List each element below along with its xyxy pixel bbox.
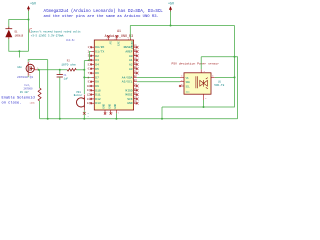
svg-text:GND: GND [127,102,133,105]
svg-text:D2: D2 [95,55,99,58]
svg-text:Enable Solenoid: Enable Solenoid [2,96,35,101]
svg-text:D9: D9 [95,85,99,88]
svg-text:AREF: AREF [125,51,132,54]
svg-text:+3-5 12VDC 3.3V-270mA: +3-5 12VDC 3.3V-270mA [31,34,64,37]
junction GND rail [115,118,117,120]
svg-text:+5V: +5V [168,3,175,7]
svg-text:3: 3 [181,76,182,78]
svg-text:Atmega32u4 (Arduino Leonardo): Atmega32u4 (Arduino Leonardo) has D2=SDA… [44,9,164,14]
bottom pin GND [110,110,112,113]
svg-text:R1 4k7: R1 4k7 [20,91,29,94]
pin AREF [134,51,138,53]
junction bar crossing [234,56,236,58]
svg-text:5V: 5V [108,41,111,45]
IC A1 Arduino_UNO_R3 body [94,40,133,110]
svg-text:GND: GND [108,103,111,108]
svg-text:A1: A1 [117,29,121,33]
wire SDA [137,76,180,78]
wire to D7 pin [84,76,91,78]
pin D7 [91,76,94,78]
wire sensor top pin [200,57,202,69]
svg-text:2N7000: 2N7000 [24,88,34,91]
wire buzzer to rail [83,110,85,118]
svg-text:7: 7 [118,111,119,114]
pin D12 [91,98,94,100]
wire source stub [27,76,29,77]
wire loop bottom [9,39,29,52]
svg-text:A1: A1 [129,59,133,62]
wire stub down [18,51,20,57]
svg-text:SCL: SCL [186,85,191,88]
diode D1 1N5819 [5,27,12,39]
bottom pin GND [104,110,106,113]
wire gate row right [76,69,84,71]
svg-text:Fet,: Fet, [25,84,31,87]
pin D0/RX [91,46,94,48]
wire GND pin to rail [115,113,117,118]
svg-text:1uF: 1uF [64,77,69,80]
pin D5 [91,68,94,70]
junction buzzer rail [83,118,85,120]
wire jog to D1/TX pin [84,52,91,61]
svg-text:D11: D11 [95,94,101,97]
wire long vertical x47.7 [47,60,49,119]
svg-text:6: 6 [181,84,182,86]
pin [134,72,138,74]
pin D1/TX [91,51,94,53]
svg-text:2: 2 [205,98,206,100]
pin D4 [91,63,94,65]
svg-text:SDA: SDA [186,81,191,84]
junction C1 tap [59,69,61,71]
svg-text:7: 7 [112,111,113,114]
svg-text:D4: D4 [95,63,99,66]
svg-text:D1/TX: D1/TX [95,50,104,54]
wire power drop [28,11,30,20]
wire power vertical [28,20,30,52]
pin A5/SCL [134,81,138,83]
svg-text:MOSI: MOSI [125,94,132,97]
junction right pin bus [234,76,236,78]
pin D2 [91,55,94,57]
svg-text:A0: A0 [129,55,133,58]
wire gate vertical x84.3 [83,61,85,94]
wire R1 top [39,70,41,88]
sensor internals [196,76,208,89]
wire C1 top [59,70,61,75]
junction sensor bottom [203,106,205,108]
svg-text:2: 2 [128,37,129,40]
svg-text:1070 ohm: 1070 ohm [61,63,76,67]
wire inner vertical + return y107 [162,26,235,108]
junction power right [170,25,172,27]
svg-text:MISO: MISO [125,89,132,92]
pin D6 [91,72,94,74]
svg-text:D10: D10 [95,89,101,92]
svg-text:RESET: RESET [130,41,133,49]
pin SCK [134,98,138,100]
buzzer pin marks [83,112,86,115]
junction node gate tap [18,50,20,52]
wire sensor right pin [215,76,235,78]
pin D3 [91,59,94,61]
svg-text:SCK: SCK [127,98,133,101]
svg-text:GND: GND [114,103,117,108]
wire sensor bottom pin [203,100,205,107]
svg-text:Buzzer: Buzzer [74,94,83,97]
pin A0 [134,55,138,57]
junction power node [28,19,30,21]
svg-text:1N5819: 1N5819 [15,34,24,37]
wire drain loop top [28,60,48,62]
wire SCL [137,81,180,83]
pin RESET [134,46,138,48]
power arrow left [27,6,30,11]
top pin 3V3 [116,37,118,40]
annotation bracket [29,29,32,33]
svg-text:GA1: GA1 [17,66,22,69]
svg-text:1: 1 [204,71,205,73]
svg-text:100k: 100k [30,102,36,105]
svg-text:D6: D6 [95,72,99,75]
power arrow right [169,6,172,11]
svg-text:P5V deviation Power sensor: P5V deviation Power sensor [172,62,220,66]
svg-text:7: 7 [106,111,107,114]
wire power right drop [170,11,172,25]
pin A1 [134,59,138,61]
pin GND [134,102,138,104]
buzzer PZ1 [76,95,84,111]
wire bottom rail [40,118,238,120]
svg-text:Doesn't exceed board rated vol: Doesn't exceed board rated volts [31,29,81,33]
svg-text:D8: D8 [95,81,99,84]
transistor Q1 [26,62,39,76]
wire x162 drop [161,107,163,119]
pin D13 [91,102,94,104]
svg-text:3V3: 3V3 [117,41,120,46]
wire R1 bottom [39,101,41,119]
pin D11 [91,94,94,96]
junction x47.7 rail [47,118,49,120]
svg-text:on close.: on close. [2,100,22,105]
svg-text:2: 2 [106,37,107,40]
junction at Q1 pin [38,69,40,71]
svg-text:GND: GND [103,103,106,108]
svg-text:D13: D13 [95,102,101,105]
svg-text:R2: R2 [67,59,71,62]
svg-text:D0/RX: D0/RX [95,45,104,49]
junction x84.3 gate row [83,69,85,71]
svg-text:5CD-T8: 5CD-T8 [214,84,224,87]
pin MOSI [134,94,138,96]
svg-text:A4/SDA: A4/SDA [122,75,133,79]
pin [134,85,138,87]
svg-text:2: 2 [115,37,116,40]
svg-text:D3: D3 [95,59,99,62]
capacitor C1 [57,75,63,77]
svg-text:D7: D7 [95,76,99,79]
resistor R1 [38,88,41,101]
svg-text:3v3-5v: 3v3-5v [66,39,75,42]
pin D9 [91,85,94,87]
pin A3 [134,68,138,70]
svg-text:A3: A3 [129,68,133,71]
wire bar y53.3 + outer vertical [201,57,237,119]
svg-text:4: 4 [181,80,182,82]
wire gate row left [39,69,68,71]
wire top bus [130,25,234,27]
svg-text:5: 5 [212,76,213,78]
pin MISO [134,89,138,91]
junction x162 rail [161,118,163,120]
sensor U1 body [184,73,211,94]
top pin 5V [108,37,110,40]
top pin RESET [129,37,131,40]
junction C1 rail [59,118,61,120]
pin A2 [134,63,138,65]
pin D10 [91,89,94,91]
resistor R2 [67,69,76,72]
wire into IC top pin [129,26,131,39]
pin A4/SDA [134,76,138,78]
wire C1 bottom [59,77,61,119]
svg-text:D12: D12 [95,98,101,101]
svg-text:+5V: +5V [30,2,37,6]
wire top-left loop top [9,20,29,29]
svg-text:A5/SCL: A5/SCL [122,80,133,84]
svg-text:D5: D5 [95,68,99,71]
bottom pin GND [115,110,117,113]
svg-text:and the other pins are the sam: and the other pins are the same as Ardui… [44,14,159,19]
sensor pins [180,69,215,100]
pin D8 [91,81,94,83]
svg-text:A2: A2 [129,63,133,66]
svg-text:2N7000 Q1: 2N7000 Q1 [17,76,33,79]
junction x84.3 D7 [83,76,85,78]
